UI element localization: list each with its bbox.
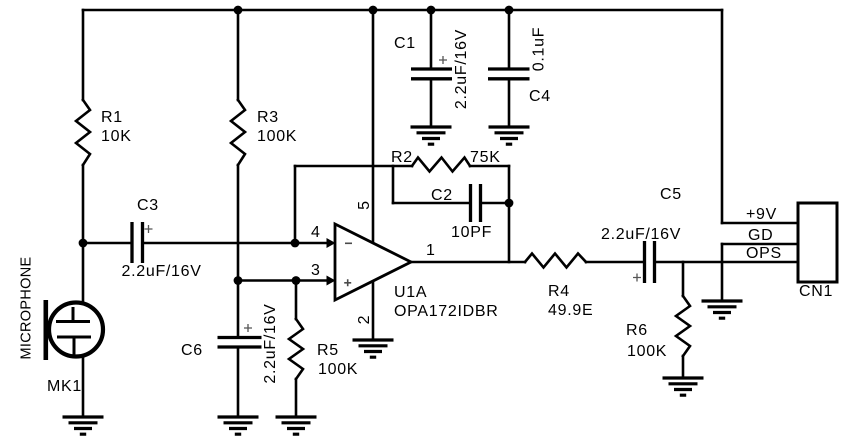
wire R6 top branch xyxy=(682,262,685,296)
svg-text:C5: C5 xyxy=(660,186,682,203)
svg-text:R2: R2 xyxy=(391,149,413,166)
wire R3 bottom to pin3 node xyxy=(237,165,240,281)
polarity plus C6 xyxy=(244,324,252,332)
wire C1 drop from rail xyxy=(430,10,433,68)
capacitor C2 xyxy=(471,184,481,222)
svg-text:R5: R5 xyxy=(317,342,339,359)
node junction R3-pin3 xyxy=(234,276,243,285)
svg-text:C6: C6 xyxy=(181,342,203,359)
ground under C1 xyxy=(411,127,452,144)
microphone MK1 xyxy=(46,300,103,360)
svg-text:C1: C1 xyxy=(394,35,416,52)
svg-text:1: 1 xyxy=(426,242,436,259)
capacitor C6 xyxy=(218,338,262,348)
wire C4 bottom to ground xyxy=(508,80,511,127)
svg-text:10PF: 10PF xyxy=(451,224,492,241)
wire feedback left vertical xyxy=(294,166,297,243)
resistor R2 xyxy=(412,158,470,172)
node junction rail-pin5 xyxy=(369,6,378,15)
resistor R4 xyxy=(525,254,586,268)
wire microphone bottom to ground xyxy=(82,357,85,417)
node junction mic-C3 xyxy=(79,239,88,248)
wire C2 left branch vertical xyxy=(392,166,395,203)
wire C2 right to feedback node xyxy=(482,202,509,205)
svg-text:C3: C3 xyxy=(137,197,159,214)
wire C3 right plate to op-amp pin 4 xyxy=(144,242,329,245)
svg-text:2.2uF/16V: 2.2uF/16V xyxy=(122,263,202,280)
wire C6 bottom to ground xyxy=(237,349,240,418)
svg-text:MK1: MK1 xyxy=(47,378,82,395)
capacitor C1 xyxy=(411,69,452,79)
svg-text:49.9E: 49.9E xyxy=(548,302,593,319)
svg-text:100K: 100K xyxy=(318,361,358,378)
node junction C2-R2 right xyxy=(505,199,514,208)
wire C5 to connector OPS pin xyxy=(656,261,799,264)
wire GD vertical to ground xyxy=(721,244,724,301)
wire feedback right vertical to output xyxy=(508,166,511,262)
svg-text:3: 3 xyxy=(311,262,321,279)
resistor R1 xyxy=(76,100,90,165)
ground under microphone xyxy=(63,417,104,434)
node junction rail-C1 xyxy=(427,6,436,15)
ground under C6 xyxy=(218,417,259,434)
wire R4 to C5 xyxy=(586,261,643,264)
node junction R5-pin3 xyxy=(292,276,301,285)
svg-text:0.1uF: 0.1uF xyxy=(531,27,548,71)
wire C4 drop from rail xyxy=(508,10,511,68)
svg-text:C2: C2 xyxy=(431,187,453,204)
wire op-amp output to R4 xyxy=(411,261,525,264)
svg-text:2.2uF/16V: 2.2uF/16V xyxy=(453,29,470,109)
svg-text:OPS: OPS xyxy=(746,245,782,262)
svg-text:10K: 10K xyxy=(101,128,132,145)
svg-text:2.2uF/16V: 2.2uF/16V xyxy=(601,226,681,243)
ground under C4 xyxy=(489,127,530,144)
wire feedback top to R2 xyxy=(295,165,412,168)
svg-text:R4: R4 xyxy=(548,283,570,300)
svg-text:OPA172IDBR: OPA172IDBR xyxy=(394,303,499,320)
svg-text:100K: 100K xyxy=(627,343,667,360)
node junction rail-R3 xyxy=(234,6,243,15)
svg-text:+9V: +9V xyxy=(746,206,777,223)
capacitor C3 xyxy=(132,222,143,263)
wire R5 bottom to ground xyxy=(295,379,298,417)
wire C1 bottom to ground xyxy=(430,80,433,127)
capacitor C5 xyxy=(645,241,655,283)
wire +9V to connector xyxy=(722,222,798,225)
wire pin3 horizontal to op-amp xyxy=(238,279,329,282)
ground under op-amp pin2 xyxy=(353,340,394,357)
svg-text:U1A: U1A xyxy=(394,284,427,301)
ground under R5 xyxy=(276,417,317,434)
wire R2 right to corner xyxy=(470,165,509,168)
resistor R5 xyxy=(289,319,303,379)
capacitor C4 xyxy=(488,69,530,79)
wire rail right vertical to +9V xyxy=(721,10,724,223)
wire op-amp pin5 supply drop xyxy=(372,10,375,243)
wire R6 bottom to ground xyxy=(682,356,685,378)
svg-text:MICROPHONE: MICROPHONE xyxy=(19,257,35,360)
wire C2 left horizontal xyxy=(393,202,469,205)
wire R3 drop from rail xyxy=(237,10,240,100)
svg-text:2.2uF/16V: 2.2uF/16V xyxy=(262,303,279,383)
polarity plus C3 xyxy=(145,225,153,233)
svg-text:100K: 100K xyxy=(257,128,297,145)
svg-text:R1: R1 xyxy=(101,109,123,126)
wire mic node to C3 left plate xyxy=(83,242,131,245)
svg-text:GD: GD xyxy=(748,227,773,244)
ground under R6 xyxy=(663,378,704,395)
wire op-amp pin2 to ground xyxy=(372,281,375,340)
wire R1 bottom to microphone xyxy=(82,165,85,302)
wire GD to connector xyxy=(722,243,798,246)
ground under connector GD xyxy=(702,301,743,318)
wire pin3 node down to C6 xyxy=(237,281,240,337)
svg-text:5: 5 xyxy=(356,200,373,210)
polarity plus C5 xyxy=(633,274,641,282)
svg-text:R6: R6 xyxy=(626,322,648,339)
op-amp U1A xyxy=(327,224,412,300)
svg-text:4: 4 xyxy=(311,224,321,241)
resistor R3 xyxy=(231,100,245,165)
svg-text:75K: 75K xyxy=(470,149,501,166)
wire top power rail xyxy=(83,9,722,12)
connector CN1 xyxy=(798,203,837,282)
node junction inverting input feedback xyxy=(291,239,300,248)
node junction rail-C4 xyxy=(505,6,514,15)
svg-text:CN1: CN1 xyxy=(799,283,833,300)
svg-text:R3: R3 xyxy=(257,109,279,126)
wire R5 top from pin3 node xyxy=(295,281,298,320)
polarity plus C1 xyxy=(439,56,447,64)
svg-text:2: 2 xyxy=(356,315,373,325)
wire left vertical from rail to R1 xyxy=(82,10,85,100)
resistor R6 xyxy=(676,296,690,356)
svg-text:C4: C4 xyxy=(529,88,551,105)
